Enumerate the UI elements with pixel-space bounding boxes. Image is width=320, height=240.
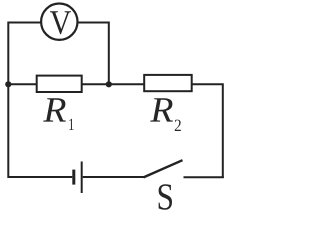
node B junction dot (left) [5, 81, 11, 87]
label R1 subscript 1 [69, 119, 73, 130]
battery negative plate (short) [72, 170, 75, 185]
wire bottom-left horizontal to battery [8, 176, 72, 178]
wire bottom-right switch contact [184, 176, 224, 178]
resistor R2 body [144, 75, 192, 91]
wire from voltmeter right, corner down to node A [78, 23, 109, 85]
wire between R1 and R2 through node A [82, 83, 145, 85]
voltmeter U1 circle [41, 4, 77, 40]
voltmeter label V [50, 11, 71, 34]
label R1 [43, 98, 66, 121]
switch S blade [144, 160, 183, 177]
resistor R1 body [37, 76, 82, 92]
label R2 [150, 98, 173, 121]
label R2 subscript 2 [175, 120, 181, 131]
wire top-left horizontal from left corner to voltmeter [8, 22, 40, 24]
wire from R2 to top-right corner and right vertical [192, 84, 223, 178]
battery positive plate (long) [81, 162, 83, 194]
node A junction dot (right) [106, 81, 112, 87]
wire left vertical [7, 22, 9, 179]
wire middle-left from node B to R1 [8, 83, 36, 85]
wire bottom from battery to switch [83, 176, 145, 178]
label S for switch [159, 184, 172, 209]
